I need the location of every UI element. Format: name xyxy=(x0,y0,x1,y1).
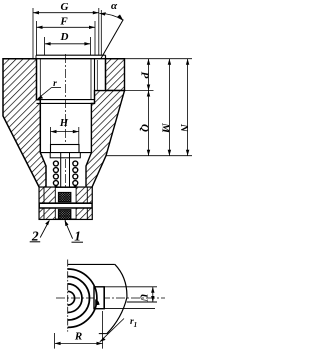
nut cross-hatched xyxy=(58,192,71,201)
lug right edge restroke xyxy=(103,287,105,309)
leader 1 xyxy=(65,222,72,239)
leader 2 xyxy=(40,221,49,238)
alpha arc xyxy=(99,13,123,20)
dim H xyxy=(51,127,79,144)
funnel body right flange ring section (hatched) xyxy=(106,59,125,91)
svg-text:D: D xyxy=(60,31,69,43)
stem end cross-hatched xyxy=(58,210,71,220)
svg-text:F: F xyxy=(59,16,68,28)
bore back edges seen in counterbore xyxy=(39,59,41,100)
svg-text:N: N xyxy=(178,123,190,133)
svg-text:P: P xyxy=(139,72,151,79)
svg-text:1: 1 xyxy=(74,229,81,244)
svg-text:H: H xyxy=(59,118,69,129)
lug edge lines right xyxy=(104,286,157,288)
bore bottom shoulder xyxy=(40,152,91,154)
svg-text:1: 1 xyxy=(134,321,138,329)
sieve plate on top xyxy=(36,54,106,56)
lug inner dark wedge xyxy=(95,299,99,305)
block hatch lower-right xyxy=(76,208,92,219)
main view centerline xyxy=(65,54,67,223)
svg-text:Q: Q xyxy=(139,124,151,132)
spring left coils xyxy=(53,161,58,191)
angle alpha slant line xyxy=(101,20,124,59)
dim N xyxy=(186,59,189,156)
concentric half-circles xyxy=(68,269,97,327)
flange top surface xyxy=(3,58,125,60)
stem rod xyxy=(60,153,62,193)
big arc R xyxy=(107,264,127,333)
dim G xyxy=(33,8,99,59)
svg-text:α: α xyxy=(111,0,118,12)
screw hole right wall xyxy=(105,55,107,90)
block band lines xyxy=(39,202,92,204)
bottom flat line xyxy=(99,333,107,335)
bottom block outer xyxy=(39,187,92,219)
spring right coils xyxy=(73,161,78,191)
dim M xyxy=(168,59,171,156)
screw hole left wall xyxy=(94,59,96,104)
leader r xyxy=(52,87,62,89)
screw hole thread line xyxy=(96,60,98,91)
svg-text:G: G xyxy=(61,1,69,13)
vertical centerline xyxy=(67,260,69,332)
horizontal centerline xyxy=(56,297,165,299)
top extension line to right xyxy=(125,58,193,60)
svg-text:2: 2 xyxy=(31,228,39,243)
svg-text:M: M xyxy=(160,122,172,134)
block hatch upper-left xyxy=(39,187,55,203)
stem top plate (two lines across bore) xyxy=(37,99,95,101)
top flat line xyxy=(68,263,115,265)
dim D xyxy=(45,37,91,55)
dim P xyxy=(125,59,154,91)
leader r1 xyxy=(100,319,124,342)
lug rectangle xyxy=(94,287,104,309)
block sleeve verticals xyxy=(43,187,45,203)
extension line bottom of cone xyxy=(106,155,192,157)
dim R xyxy=(55,311,103,349)
funnel body right cone section (hatched) xyxy=(86,91,125,188)
spring seat washer xyxy=(50,153,80,158)
svg-text:R: R xyxy=(74,331,82,343)
funnel body left section (hatched) xyxy=(3,59,46,188)
block hatch upper-right xyxy=(76,187,92,203)
hole edge line above flange xyxy=(100,10,102,55)
dim F xyxy=(37,21,96,55)
svg-text:r: r xyxy=(53,79,57,89)
dim U xyxy=(151,287,154,302)
dim Q xyxy=(147,91,150,156)
block hatch lower-left xyxy=(39,208,55,219)
stem flange xyxy=(51,145,80,153)
